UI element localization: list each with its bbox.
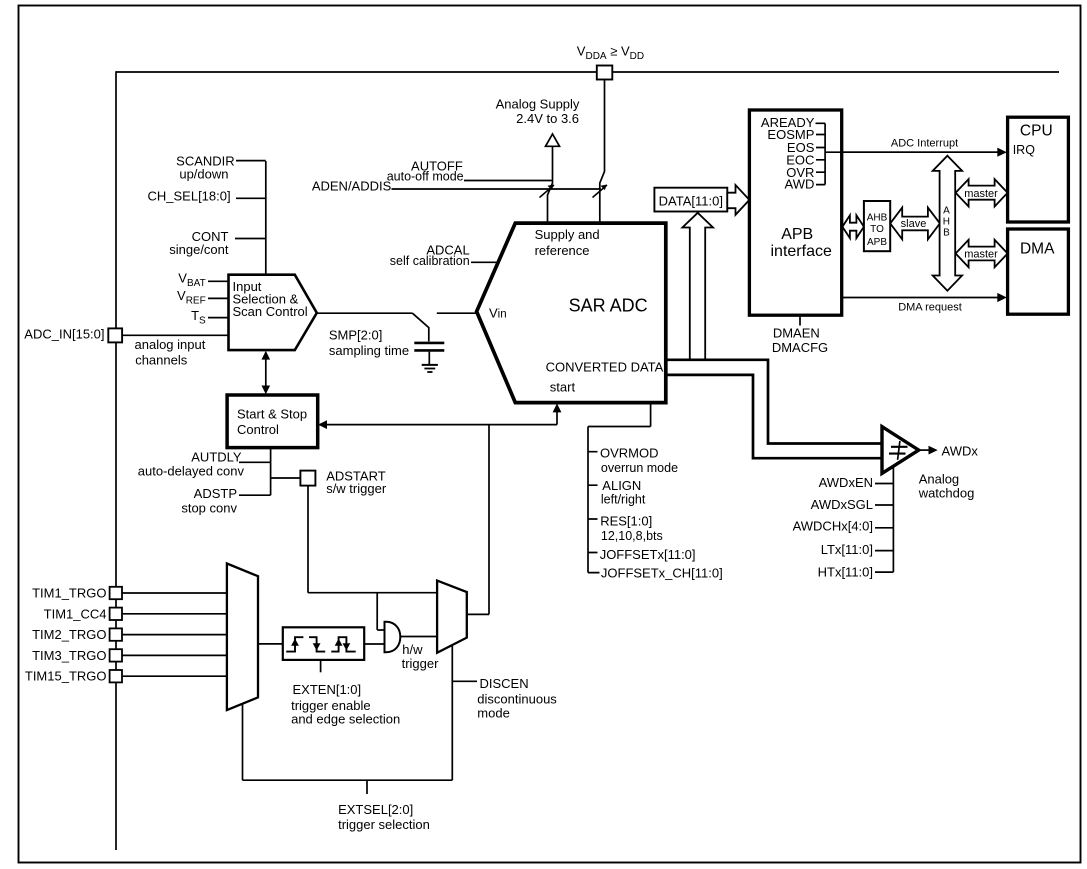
svg-text:SAR ADC: SAR ADC xyxy=(569,296,648,316)
svg-text:APB: APB xyxy=(867,237,887,248)
svg-text:s/w trigger: s/w trigger xyxy=(326,481,387,496)
svg-text:EXTSEL[2:0]: EXTSEL[2:0] xyxy=(338,802,413,817)
svg-text:ADC Interrupt: ADC Interrupt xyxy=(891,137,958,149)
svg-text:SMP[2:0]: SMP[2:0] xyxy=(329,327,382,342)
svg-text:DMA request: DMA request xyxy=(898,302,962,314)
svg-text:auto-off mode: auto-off mode xyxy=(387,169,464,183)
svg-text:master: master xyxy=(964,249,998,261)
svg-text:analog input: analog input xyxy=(135,337,206,352)
svg-text:ALIGN: ALIGN xyxy=(602,478,641,493)
svg-text:TIM1_CC4: TIM1_CC4 xyxy=(44,606,107,621)
svg-text:interface: interface xyxy=(771,243,832,260)
svg-text:APB: APB xyxy=(781,226,813,243)
svg-text:TIM15_TRGO: TIM15_TRGO xyxy=(25,669,107,684)
svg-text:AUTDLY: AUTDLY xyxy=(191,449,242,464)
svg-text:ADSTP: ADSTP xyxy=(194,486,237,501)
svg-text:IRQ: IRQ xyxy=(1013,143,1035,157)
svg-text:master: master xyxy=(964,188,998,200)
svg-text:DISCEN: DISCEN xyxy=(480,676,529,691)
svg-text:2.4V to 3.6: 2.4V to 3.6 xyxy=(516,111,579,126)
svg-text:TIM2_TRGO: TIM2_TRGO xyxy=(32,627,106,642)
svg-text:DMACFG: DMACFG xyxy=(772,340,828,355)
svg-text:overrun mode: overrun mode xyxy=(601,461,678,475)
svg-text:H: H xyxy=(943,217,950,228)
svg-text:RES[1:0]: RES[1:0] xyxy=(600,513,652,528)
svg-text:CH_SEL[18:0]: CH_SEL[18:0] xyxy=(147,189,230,204)
svg-text:left/right: left/right xyxy=(601,493,646,507)
svg-text:AWDxSGL: AWDxSGL xyxy=(811,497,873,512)
svg-text:Analog Supply: Analog Supply xyxy=(496,96,580,111)
svg-text:DMAEN: DMAEN xyxy=(773,326,820,341)
svg-text:JOFFSETx_CH[11:0]: JOFFSETx_CH[11:0] xyxy=(601,566,723,581)
svg-text:Vin: Vin xyxy=(489,305,507,320)
svg-text:discontinuous: discontinuous xyxy=(477,692,557,707)
svg-text:CONVERTED DATA: CONVERTED DATA xyxy=(546,360,664,375)
svg-text:self calibration: self calibration xyxy=(390,254,470,268)
svg-text:Control: Control xyxy=(237,422,279,437)
svg-text:AWDCHx[4:0]: AWDCHx[4:0] xyxy=(793,518,873,533)
svg-text:h/w: h/w xyxy=(402,642,423,657)
svg-text:trigger selection: trigger selection xyxy=(338,817,430,832)
svg-text:mode: mode xyxy=(477,706,510,721)
svg-text:A: A xyxy=(943,206,950,217)
svg-text:slave: slave xyxy=(901,218,927,230)
svg-text:EXTEN[1:0]: EXTEN[1:0] xyxy=(293,682,362,697)
svg-text:CPU: CPU xyxy=(1020,122,1053,139)
svg-text:AWD: AWD xyxy=(785,176,815,191)
svg-text:AHB: AHB xyxy=(867,213,888,224)
svg-text:watchdog: watchdog xyxy=(918,485,975,500)
svg-text:B: B xyxy=(943,228,950,239)
svg-text:12,10,8,bts: 12,10,8,bts xyxy=(601,529,663,543)
svg-text:TIM3_TRGO: TIM3_TRGO xyxy=(32,648,106,663)
svg-text:Supply and: Supply and xyxy=(535,227,600,242)
svg-text:sampling time: sampling time xyxy=(329,343,409,358)
svg-text:ADEN/ADDIS: ADEN/ADDIS xyxy=(312,179,392,194)
svg-text:DATA[11:0]: DATA[11:0] xyxy=(659,193,723,208)
svg-text:up/down: up/down xyxy=(179,167,228,182)
svg-text:trigger: trigger xyxy=(402,656,440,671)
svg-text:trigger enable: trigger enable xyxy=(291,698,371,713)
svg-text:reference: reference xyxy=(535,243,590,258)
svg-text:Scan Control: Scan Control xyxy=(233,304,308,319)
svg-text:JOFFSETx[11:0]: JOFFSETx[11:0] xyxy=(600,547,696,562)
svg-text:ADC_IN[15:0]: ADC_IN[15:0] xyxy=(24,326,104,341)
svg-text:LTx[11:0]: LTx[11:0] xyxy=(821,542,873,557)
svg-text:Analog: Analog xyxy=(919,471,959,486)
svg-text:and edge selection: and edge selection xyxy=(291,712,400,727)
svg-text:OVRMOD: OVRMOD xyxy=(600,445,659,460)
svg-text:TIM1_TRGO: TIM1_TRGO xyxy=(32,586,106,601)
svg-text:Start & Stop: Start & Stop xyxy=(237,406,307,421)
svg-text:stop conv: stop conv xyxy=(181,501,237,516)
svg-text:channels: channels xyxy=(135,353,188,368)
svg-text:auto-delayed conv: auto-delayed conv xyxy=(138,463,245,478)
svg-text:TO: TO xyxy=(870,224,884,235)
svg-text:AWDx: AWDx xyxy=(942,443,979,458)
svg-text:DMA: DMA xyxy=(1020,240,1055,257)
svg-text:singe/cont: singe/cont xyxy=(169,242,229,257)
svg-text:AWDxEN: AWDxEN xyxy=(819,475,873,490)
svg-text:HTx[11:0]: HTx[11:0] xyxy=(818,564,873,579)
svg-text:start: start xyxy=(550,379,576,394)
